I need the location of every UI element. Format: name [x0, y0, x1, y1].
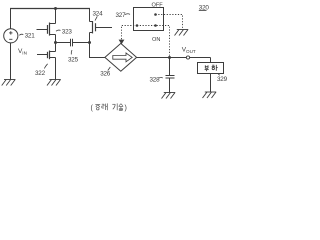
wire VOUT to load [210, 58, 212, 63]
svg-text:328: 328 [150, 76, 161, 83]
svg-text:IN: IN [22, 51, 27, 56]
capacitor 325 [71, 39, 73, 47]
arrowhead to 326 [119, 40, 125, 45]
caption (jongrae gisul) [91, 103, 127, 112]
wire 323 drain to rail [55, 9, 57, 24]
label 320 [199, 4, 210, 11]
voltage source 321 [4, 29, 18, 43]
svg-text:324: 324 [93, 11, 104, 18]
transistor 324 [90, 21, 113, 33]
svg-text:325: 325 [68, 57, 79, 64]
svg-text:327: 327 [116, 12, 127, 19]
junction rail / 323 [54, 7, 57, 10]
wire source to rail [10, 9, 12, 30]
current limiter 326 (diamond with arrow) [105, 43, 137, 71]
junction VOUT / C328 [168, 56, 171, 59]
wire source to ground [10, 43, 12, 80]
svg-text:326: 326 [100, 71, 111, 78]
power rail wire [10, 8, 90, 10]
label 321 [19, 32, 35, 39]
ground (C328) [162, 93, 176, 99]
svg-text:322: 322 [35, 70, 46, 77]
node VOUT terminal [186, 56, 189, 59]
svg-text:(: ( [91, 105, 94, 112]
wire 324 source to node B [89, 33, 91, 43]
wire node B to current limiter [90, 43, 105, 58]
label 328 [150, 76, 163, 83]
svg-text:323: 323 [62, 28, 73, 35]
transistor 322 [37, 51, 56, 60]
svg-text:): ) [125, 105, 127, 112]
label 329 [217, 74, 228, 84]
label 324 [93, 11, 104, 21]
dashed control common to 326 [122, 26, 138, 40]
ground (input source) [2, 80, 16, 86]
switch box 327 [134, 8, 164, 31]
switch contact OFF [154, 13, 157, 16]
dashed control OFF to ground [156, 15, 183, 30]
svg-text:OUT: OUT [186, 49, 196, 54]
label VIN [18, 48, 27, 56]
label 322 [35, 64, 48, 77]
load box 329 (buha) [198, 63, 224, 74]
junction node B [88, 41, 91, 44]
wire 326 to VOUT rail [137, 57, 211, 59]
wire rail to 324 drain [89, 9, 91, 22]
label 325 [68, 50, 79, 64]
dashed control common to VOUT [137, 26, 170, 57]
label VOUT [182, 47, 196, 55]
label 326 [100, 67, 111, 78]
ground (load) [203, 92, 217, 98]
wire node A to 322 drain [55, 43, 57, 52]
label 327 [116, 12, 131, 19]
svg-text:ON: ON [152, 37, 160, 43]
capacitor 328 [166, 76, 175, 79]
switch contact common right [154, 24, 157, 27]
wire 323 source to node A [55, 35, 57, 43]
wire C328 to ground [169, 78, 171, 93]
wire VOUT to C328 [169, 58, 171, 76]
ground (OFF path) [175, 30, 189, 36]
switch contact common left [136, 24, 139, 27]
wire node A to C325 [56, 42, 71, 44]
svg-text:321: 321 [25, 32, 36, 39]
label 323 [56, 28, 72, 35]
wire load to ground [210, 74, 212, 93]
junction node A [54, 41, 57, 44]
wire C325 to node B [73, 42, 90, 44]
transistor 323 [37, 23, 56, 36]
ground (322) [47, 80, 61, 86]
svg-text:OFF: OFF [152, 2, 164, 8]
wire 322 source to ground [55, 58, 57, 80]
svg-text:329: 329 [217, 76, 228, 83]
